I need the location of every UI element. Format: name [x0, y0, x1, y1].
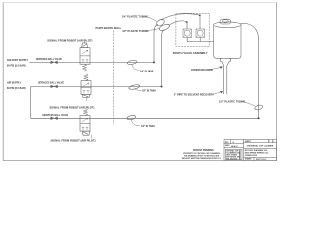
lasso ellipse e1 on line1 [127, 60, 137, 66]
wire: branch vertical from line2 to line3 [30, 87, 32, 119]
junction dot line3/right tube [258, 117, 260, 119]
ball valve B1 (services, line1) [51, 61, 58, 64]
solenoid valve V2 body [81, 81, 91, 95]
wire dotB to booth valve 2 [199, 15, 201, 29]
booth valve 2 (square+circle) [196, 29, 205, 38]
svg-text:1: 1 [269, 141, 270, 143]
svg-text:COMPOUND DRAIN: COMPOUND DRAIN [191, 69, 213, 72]
svg-text:AIR SUPPLY: AIR SUPPLY [7, 82, 22, 85]
V1 spring (below) [82, 64, 86, 71]
wire: solvent supply line1 y62.4 [30, 61, 155, 63]
compound drain leader arrowhead [219, 66, 222, 69]
V3 spring (above) [83, 109, 87, 116]
svg-text:SERVICES BALL VALVE: SERVICES BALL VALVE [38, 82, 64, 85]
svg-text:UNIVERSAL CUP CLEANER: UNIVERSAL CUP CLEANER [247, 145, 274, 148]
svg-text:PAINT BOOTH WALL: PAINT BOOTH WALL [96, 26, 122, 30]
svg-text:04.08.07: 04.08.07 [231, 145, 238, 148]
tube B exit arc to dot A [169, 21, 187, 25]
V2 spring (above) [84, 74, 88, 81]
wire dotA to booth valve 1 [186, 22, 188, 29]
title block frame [224, 140, 276, 161]
V2 pilot cap (bottom) [82, 94, 90, 97]
paint booth wall dashed line [113, 31, 115, 125]
lasso ellipse e2 on line2 [129, 84, 141, 90]
svg-text:WITHOUT WRITTEN PERMISSION FRO: WITHOUT WRITTEN PERMISSION FROM CCC [182, 158, 222, 160]
border frame [3, 2, 276, 160]
leader e2 to label [135, 89, 142, 91]
solenoid valve V3 body [80, 116, 90, 132]
svg-text:SERVICES BALL VALVE: SERVICES BALL VALVE [42, 114, 68, 117]
svg-text:1: 1 [273, 141, 274, 143]
V2 pilot stem [86, 98, 89, 101]
V1 pilot stem [84, 42, 86, 43]
svg-text:1/2" PLASTIC TUBING: 1/2" PLASTIC TUBING [122, 30, 148, 33]
wire: air supply line2 y86.5 [31, 86, 162, 88]
tank outlet tube to right (1/2 plastic tubing) [241, 24, 259, 119]
2in pipe leader arrowhead [220, 91, 223, 93]
ball valve B2 (services, line2) [51, 85, 58, 88]
junction dot line1/tubeA [153, 61, 155, 63]
svg-text:INTERLOCKS: INTERLOCKS [245, 155, 258, 157]
leader e4 to label [244, 102, 256, 107]
svg-text:NOT-0001 DIAGRAM 10%: NOT-0001 DIAGRAM 10% [245, 149, 268, 152]
svg-text:BOOTH VALVE ASSEMBLY: BOOTH VALVE ASSEMBLY [173, 51, 208, 55]
svg-text:TEL 555 0100: TEL 555 0100 [226, 158, 237, 160]
junction dot A [186, 21, 188, 23]
svg-text:SOLVENT SUPPLY: SOLVENT SUPPLY [7, 59, 29, 62]
tube A: vertical into loop1 [154, 24, 158, 62]
svg-text:1/2" IN TANK: 1/2" IN TANK [142, 89, 156, 92]
svg-text:1/2" PLASTIC TUBING: 1/2" PLASTIC TUBING [219, 101, 245, 104]
svg-text:2007-011-1: 2007-011-1 [256, 159, 267, 161]
V3 pilot cap (bottom) [82, 131, 90, 135]
svg-text:SHEET: SHEET [245, 141, 252, 143]
lasso ellipse e4 on right tube [254, 104, 263, 110]
drain tube (2in pipe) [224, 66, 227, 94]
svg-text:SIGNAL FROM ROBOT (AIR PILOT): SIGNAL FROM ROBOT (AIR PILOT) [49, 105, 94, 109]
svg-text:1/4" IN TANK: 1/4" IN TANK [140, 70, 154, 73]
tank bottom flange [221, 58, 231, 61]
svg-text:80 PSI (5.5 BAR): 80 PSI (5.5 BAR) [7, 87, 26, 90]
tank cap [220, 19, 231, 24]
booth valve 1 (square+circle) [183, 29, 192, 38]
svg-text:DRAWN: DRAWN [245, 158, 252, 161]
V3 label leader tick [90, 135, 92, 138]
svg-text:1/4" PLASTIC TUBING: 1/4" PLASTIC TUBING [122, 15, 148, 18]
tube A exit arc to dot B [161, 14, 200, 20]
tank funnel outlet [222, 62, 229, 66]
leader from text '1/2 plastic tubing' [147, 28, 160, 30]
svg-text:SIGNAL FROM ROBOT (AIR PILOT): SIGNAL FROM ROBOT (AIR PILOT) [51, 139, 96, 143]
svg-text:1/2" IN TANK: 1/2" IN TANK [141, 125, 155, 128]
svg-text:SIGNAL FROM ROBOT (AIR PILOT): SIGNAL FROM ROBOT (AIR PILOT) [47, 38, 92, 42]
svg-text:2" PIPE TO SOLVENT RECOVERY: 2" PIPE TO SOLVENT RECOVERY [174, 94, 214, 97]
tube A loop [155, 18, 165, 27]
wire: line3 y118.3 [31, 117, 259, 119]
V1 pilot cap (top) [82, 43, 88, 48]
svg-text:PATENT PENDING: PATENT PENDING [193, 149, 214, 152]
junction dot line2/tubeB [161, 86, 163, 88]
booth valve assembly dashed box [176, 13, 209, 46]
tube B loop [158, 23, 170, 32]
border top edge [3, 1, 276, 3]
2in pipe label leader [213, 92, 221, 95]
leader e3 to label [131, 120, 140, 126]
leader from text '1/4 plastic tubing' [146, 17, 156, 22]
svg-text:SERVICES BALL VALVE: SERVICES BALL VALVE [36, 58, 62, 61]
lasso ellipse e3 on line3 [127, 115, 137, 121]
ball valve B3 (services, line3) [51, 117, 58, 120]
leader e1 to label [132, 64, 140, 70]
compound drain leader [209, 68, 220, 70]
wires below booth valves to tank [187, 38, 214, 42]
svg-text:80 PSI (5.5 BAR): 80 PSI (5.5 BAR) [7, 65, 26, 68]
tube B: vertical into loop2 [162, 30, 165, 87]
junction dot B [199, 15, 201, 17]
solenoid valve V1 body [80, 48, 90, 64]
svg-text:THE DRAWING IS NOT TO BE DIVUL: THE DRAWING IS NOT TO BE DIVULGED [184, 154, 220, 157]
tank body [214, 22, 241, 58]
